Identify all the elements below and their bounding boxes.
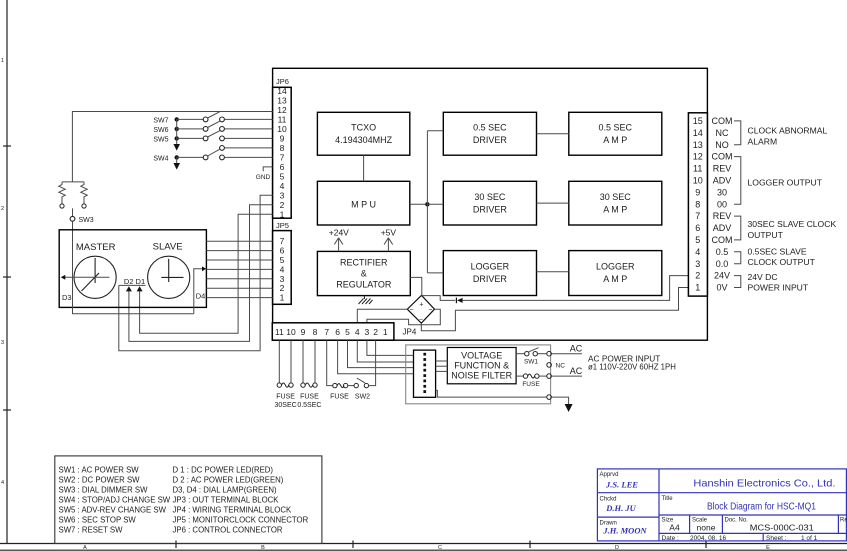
- svg-text:2004. 08. 16: 2004. 08. 16: [690, 535, 727, 542]
- svg-text:2: 2: [1, 206, 4, 212]
- svg-text:Sheet :: Sheet :: [766, 535, 787, 542]
- svg-text:0V: 0V: [716, 283, 727, 293]
- svg-text:TCXO: TCXO: [351, 123, 376, 133]
- svg-text:SW6 : SEC STOP SW: SW6 : SEC STOP SW: [59, 516, 137, 525]
- contact circle under R-dim2: [82, 204, 86, 208]
- svg-text:D.H. JU: D.H. JU: [605, 503, 636, 513]
- svg-text:3: 3: [1, 340, 4, 346]
- junction node on MPU bus: [425, 202, 429, 206]
- svg-text:1: 1: [280, 293, 285, 303]
- svg-text:OUTPUT: OUTPUT: [748, 230, 784, 240]
- svg-text:15: 15: [693, 116, 703, 126]
- svg-text:D3, D4 : DIAL LAMP(GREEN): D3, D4 : DIAL LAMP(GREEN): [173, 486, 278, 495]
- wire JP6 pin1 to LED D1: [140, 214, 273, 333]
- wire 30 driver to amp: [537, 202, 569, 204]
- logger amp block: [569, 251, 662, 296]
- connector JP4 wiring terminal block: [272, 323, 417, 340]
- svg-text:4: 4: [355, 327, 360, 337]
- wire AC upper lead: [551, 353, 582, 355]
- svg-text:11: 11: [693, 164, 702, 174]
- svg-text:7: 7: [695, 211, 700, 221]
- svg-text:5: 5: [695, 235, 700, 245]
- terminal strip inside supply unit: [414, 350, 436, 397]
- MPU block: [317, 181, 409, 225]
- svg-text:1 of 1: 1 of 1: [801, 535, 818, 542]
- svg-text:POWER INPUT: POWER INPUT: [748, 283, 809, 293]
- svg-text:5: 5: [345, 327, 350, 337]
- wire dial dimmer to JP6 pin 12: [72, 112, 272, 182]
- svg-text:SW4: SW4: [153, 155, 168, 162]
- svg-text:24V DC: 24V DC: [748, 272, 778, 282]
- wire JP4 pin6 to line filter: [338, 340, 414, 374]
- wire bus to 0.5 sec driver: [427, 130, 443, 132]
- svg-text:4.194304MHZ: 4.194304MHZ: [335, 135, 393, 145]
- svg-text:−: −: [409, 307, 413, 314]
- +5V supply arrow: [384, 238, 393, 252]
- svg-text:LOGGER OUTPUT: LOGGER OUTPUT: [748, 178, 823, 188]
- svg-text:D: D: [615, 545, 619, 551]
- wires strip to filter block: [436, 361, 448, 371]
- wire SW3 down to dial lamps: [72, 221, 74, 277]
- svg-text:−: −: [428, 307, 432, 314]
- svg-text:D 2 : AC POWER LED(GREEN): D 2 : AC POWER LED(GREEN): [173, 476, 284, 485]
- wire AC lower lead: [551, 375, 582, 377]
- wire bus to logger driver: [427, 272, 443, 274]
- fuse F3 and switch SW2 chain JP4 pin7 to pin2: [327, 340, 376, 400]
- svg-text:DRIVER: DRIVER: [473, 205, 508, 215]
- LED common bar wire: [119, 284, 146, 286]
- svg-text:RECTIFIER: RECTIFIER: [340, 258, 388, 268]
- wire JP4 pin3 to line filter: [367, 340, 414, 355]
- svg-text:REV: REV: [713, 164, 732, 174]
- svg-text:ø1 110V-220V 60HZ 1PH: ø1 110V-220V 60HZ 1PH: [588, 362, 676, 371]
- main unit outline box: [273, 68, 708, 340]
- svg-text:9: 9: [280, 133, 285, 143]
- svg-text:10: 10: [286, 327, 296, 337]
- wire bus vertical: [426, 131, 428, 273]
- svg-text:12: 12: [693, 152, 703, 162]
- svg-text:2: 2: [373, 327, 378, 337]
- wire D4 lamp with arrow: [194, 266, 206, 313]
- svg-text:SW1: SW1: [524, 359, 538, 366]
- svg-text:SLAVE: SLAVE: [153, 242, 183, 253]
- svg-text:Block Diagram for HSC-MQ1: Block Diagram for HSC-MQ1: [707, 502, 816, 513]
- svg-text:2: 2: [695, 271, 700, 281]
- switch SW6 sec stop: [153, 121, 272, 134]
- svg-text:NOISE FILTER: NOISE FILTER: [451, 371, 512, 381]
- svg-text:NO: NO: [715, 140, 729, 150]
- wire resistor tee bar: [62, 181, 84, 183]
- wire dimmer common: [72, 208, 74, 216]
- svg-text:JP4: JP4: [403, 328, 417, 337]
- LED D1 arrow: [137, 286, 143, 291]
- wires clock unit to JP5 pins 7-1: [206, 241, 272, 297]
- svg-text:1: 1: [383, 327, 388, 337]
- title block small labels: [600, 472, 847, 527]
- wire JP6 pin2 to LED D2: [129, 205, 273, 342]
- connector JP5 monitorclock connector: [273, 221, 292, 304]
- svg-text:D 1 : DC POWER LED(RED): D 1 : DC POWER LED(RED): [173, 466, 274, 475]
- svg-text:30 SEC: 30 SEC: [600, 192, 632, 202]
- svg-text:MCS-000C-031: MCS-000C-031: [750, 523, 814, 533]
- svg-text:9: 9: [695, 187, 700, 197]
- master slave clock unit box: [59, 230, 206, 308]
- svg-text:DRIVER: DRIVER: [473, 274, 508, 284]
- fuse F4 AC line: [516, 374, 547, 388]
- svg-text:ALARM: ALARM: [748, 137, 778, 147]
- svg-text:J.S. LEE: J.S. LEE: [605, 480, 638, 490]
- svg-text:14: 14: [693, 128, 703, 138]
- GND stub at JP6 pin 6: [256, 167, 273, 181]
- label 24V DC power input: [748, 272, 809, 293]
- svg-text:SW2: SW2: [355, 394, 370, 401]
- master dial: [74, 256, 116, 298]
- svg-text:14: 14: [277, 86, 287, 96]
- JP3 pin net names: [712, 116, 733, 293]
- svg-text:A: A: [83, 545, 87, 551]
- date and sheet row: [662, 535, 818, 542]
- svg-text:3: 3: [280, 190, 285, 200]
- AC terminal lower: [547, 374, 552, 379]
- svg-text:10: 10: [277, 124, 287, 134]
- svg-text:Apprvd: Apprvd: [600, 472, 619, 478]
- slave dial: [148, 256, 190, 298]
- svg-text:Chckd: Chckd: [600, 497, 617, 503]
- contact circle under R-dim1: [60, 204, 64, 208]
- svg-text:FUSE: FUSE: [330, 394, 349, 401]
- svg-text:FUSE: FUSE: [522, 381, 540, 388]
- wire SW7-SW6-SW5 common bus: [176, 119, 178, 144]
- 0.5 sec amp block: [569, 112, 662, 155]
- svg-text:0.0: 0.0: [716, 259, 729, 269]
- svg-text:A M P: A M P: [603, 205, 627, 215]
- legend box: [55, 456, 322, 544]
- svg-text:Date :: Date :: [662, 535, 680, 542]
- svg-text:8: 8: [695, 199, 700, 209]
- svg-text:+5V: +5V: [381, 228, 397, 238]
- svg-text:A M P: A M P: [603, 135, 627, 145]
- svg-text:MASTER: MASTER: [76, 242, 116, 253]
- svg-text:JP6: JP6: [276, 77, 289, 86]
- wire JP4 pin4 to bridge AC left: [357, 309, 407, 323]
- label 30sec slave clock output: [748, 219, 837, 240]
- switch SW3 dial dimmer: [70, 216, 75, 221]
- svg-text:SW1 : AC POWER SW: SW1 : AC POWER SW: [59, 466, 140, 475]
- svg-text:REV: REV: [713, 211, 732, 221]
- connector JP3 terminal block: [688, 113, 707, 296]
- 30 sec amp block: [569, 181, 662, 225]
- svg-text:D3: D3: [62, 293, 72, 302]
- svg-text:NC: NC: [716, 128, 729, 138]
- bracket 30sec slave clock pins 7-5: [734, 216, 741, 240]
- svg-text:ADV: ADV: [713, 176, 732, 186]
- svg-text:24V: 24V: [714, 271, 730, 281]
- svg-text:&: &: [361, 269, 367, 279]
- wire TCXO to MPU: [363, 155, 365, 181]
- switch SW1 AC power: [516, 348, 547, 366]
- svg-text:30SEC SLAVE CLOCK: 30SEC SLAVE CLOCK: [748, 219, 837, 229]
- resistor R-dim1: [59, 182, 65, 204]
- svg-text:Title: Title: [662, 496, 674, 502]
- svg-text:E: E: [766, 545, 770, 551]
- svg-text:J.H. MOON: J.H. MOON: [602, 526, 647, 536]
- svg-text:ADV: ADV: [713, 223, 732, 233]
- ground symbol under regulator: [359, 296, 373, 304]
- svg-text:1: 1: [695, 283, 700, 293]
- svg-text:JP6 : CONTROL CONNECTOR: JP6 : CONTROL CONNECTOR: [173, 526, 283, 535]
- svg-text:CLOCK OUTPUT: CLOCK OUTPUT: [748, 257, 816, 267]
- wire JP4 pin3 to bridge AC right: [367, 309, 440, 325]
- svg-text:8: 8: [313, 327, 318, 337]
- bracket clock abnormal alarm pins 15-13: [734, 121, 741, 145]
- 30 sec driver block: [443, 181, 536, 225]
- svg-text:3: 3: [695, 259, 700, 269]
- svg-text:8: 8: [280, 143, 285, 153]
- svg-text:A4: A4: [669, 523, 680, 533]
- title block: [597, 469, 846, 541]
- legend text column 2: [173, 466, 309, 535]
- switch SW5 adv-rev: [153, 131, 272, 144]
- svg-text:SW3: SW3: [79, 217, 94, 224]
- LED D2 arrow: [126, 286, 132, 291]
- svg-text:+24V: +24V: [329, 228, 349, 238]
- svg-text:SW4 : STOP/ADJ CHANGE SW: SW4 : STOP/ADJ CHANGE SW: [59, 496, 171, 505]
- svg-text:GND: GND: [256, 174, 271, 181]
- svg-text:LOGGER: LOGGER: [471, 262, 510, 272]
- oscillator U-TCXO block: [317, 112, 409, 155]
- svg-text:0.5SEC: 0.5SEC: [297, 402, 321, 409]
- svg-text:6: 6: [335, 327, 340, 337]
- svg-text:0.5 SEC: 0.5 SEC: [473, 123, 507, 133]
- svg-text:5: 5: [280, 171, 285, 181]
- ground arrow under SW5: [173, 144, 180, 151]
- svg-text:REGULATOR: REGULATOR: [336, 280, 392, 290]
- wire JP6 pin3 to LED bar net: [119, 195, 273, 350]
- svg-text:7: 7: [280, 152, 285, 162]
- svg-text:4: 4: [695, 247, 700, 257]
- svg-text:AC: AC: [570, 366, 583, 376]
- svg-text:13: 13: [277, 96, 287, 106]
- switch SW4 stop/adj (SPDT): [153, 146, 272, 163]
- svg-text:LOGGER: LOGGER: [596, 262, 635, 272]
- svg-text:7: 7: [324, 327, 329, 337]
- wire bridge minus to 0V output: [421, 288, 688, 331]
- bracket logger output pins 12-8: [734, 157, 741, 205]
- svg-text:10: 10: [693, 176, 703, 186]
- svg-text:+: +: [419, 302, 423, 309]
- svg-text:JP5: JP5: [276, 221, 289, 230]
- label clock abnormal alarm: [748, 126, 828, 147]
- svg-text:FUSE: FUSE: [276, 394, 295, 401]
- svg-text:SW2 : DC POWER SW: SW2 : DC POWER SW: [59, 476, 141, 485]
- bridge rectifier diamond: [407, 295, 434, 323]
- bracket 24V DC power input pins 2-1: [734, 276, 741, 288]
- legend text column 1: [59, 466, 171, 535]
- svg-text:9: 9: [301, 327, 306, 337]
- svg-text:M P U: M P U: [351, 200, 376, 210]
- svg-text:2: 2: [280, 200, 285, 210]
- AC power supply unit box: [406, 345, 551, 404]
- svg-text:JP4 : WIRING TERMINAL BLOCK: JP4 : WIRING TERMINAL BLOCK: [173, 506, 293, 515]
- svg-text:SW5: SW5: [153, 136, 168, 143]
- svg-text:NC: NC: [556, 363, 566, 370]
- title block values: [669, 523, 814, 533]
- wire JP4 pin5 to line filter: [348, 340, 414, 367]
- svg-text:JP5 : MONITORCLOCK CONNECTOR: JP5 : MONITORCLOCK CONNECTOR: [173, 516, 309, 525]
- svg-text:1: 1: [280, 209, 285, 219]
- bracket 0.5sec slave clock pins 4-3: [734, 252, 741, 264]
- svg-text:COM: COM: [712, 235, 733, 245]
- svg-text:SW7: SW7: [153, 117, 168, 124]
- rectifier regulator block: [317, 251, 410, 295]
- logger driver block: [443, 251, 536, 296]
- svg-text:SW7 : RESET SW: SW7 : RESET SW: [59, 526, 124, 535]
- AC terminal upper: [547, 351, 552, 356]
- svg-text:SW5 : ADV-REV CHANGE SW: SW5 : ADV-REV CHANGE SW: [59, 506, 167, 515]
- svg-text:−: −: [419, 317, 423, 324]
- svg-text:30: 30: [717, 187, 727, 197]
- fuse F2 0.5SEC on JP4 pins 9-8: [297, 340, 321, 409]
- svg-text:30 SEC: 30 SEC: [474, 192, 506, 202]
- label 0.5sec slave clock output: [748, 247, 816, 268]
- svg-text:30SEC: 30SEC: [275, 402, 297, 409]
- svg-text:13: 13: [693, 140, 703, 150]
- svg-text:D2 D1: D2 D1: [124, 277, 145, 286]
- wire JP4 pin4 to line filter: [357, 340, 413, 362]
- voltage function noise filter block: [447, 348, 516, 384]
- svg-text:COM: COM: [712, 152, 733, 162]
- svg-text:4: 4: [1, 480, 4, 486]
- wire MPU to bus: [410, 203, 428, 205]
- svg-text:FUSE: FUSE: [300, 394, 319, 401]
- svg-text:4: 4: [280, 181, 285, 191]
- svg-text:none: none: [697, 523, 716, 533]
- svg-text:6: 6: [695, 223, 700, 233]
- wire bridge plus to 24V output via diode: [422, 296, 456, 301]
- svg-text:CLOCK ABNORMAL: CLOCK ABNORMAL: [748, 126, 828, 136]
- wire logger driver to amp: [537, 271, 569, 273]
- earth ground arrow: [565, 404, 573, 412]
- +24V supply arrow: [334, 238, 343, 252]
- svg-text:00: 00: [717, 199, 727, 209]
- switch SW7 reset: [153, 112, 272, 125]
- diode D5 on 24V line: [456, 298, 462, 304]
- svg-text:0.5: 0.5: [716, 247, 729, 257]
- svg-text:JP3 : OUT TERMINAL BLOCK: JP3 : OUT TERMINAL BLOCK: [173, 496, 280, 505]
- fuse F1 30SEC on JP4 pins 11-10: [275, 340, 297, 409]
- svg-text:COM: COM: [712, 116, 733, 126]
- svg-text:11: 11: [278, 114, 287, 124]
- svg-text:0.5SEC SLAVE: 0.5SEC SLAVE: [748, 247, 807, 257]
- NC terminal: [547, 363, 565, 370]
- earth terminal and wire: [436, 390, 569, 404]
- 0.5 sec driver block: [443, 112, 536, 155]
- svg-text:A M P: A M P: [603, 274, 627, 284]
- svg-text:SW3 : DIAL DIMMER SW: SW3 : DIAL DIMMER SW: [59, 486, 149, 495]
- svg-text:D4: D4: [196, 292, 206, 301]
- svg-text:C: C: [438, 545, 442, 551]
- resistor R-dim2: [81, 182, 87, 204]
- svg-text:FUNCTION &: FUNCTION &: [454, 360, 509, 370]
- svg-text:3: 3: [365, 327, 370, 337]
- svg-text:1: 1: [1, 58, 4, 64]
- wire SW3 lamp feed below box: [73, 277, 194, 314]
- svg-text:Hanshin Electronics Co., Ltd.: Hanshin Electronics Co., Ltd.: [693, 477, 835, 489]
- svg-text:VOLTAGE: VOLTAGE: [461, 350, 502, 360]
- svg-text:Re: Re: [840, 518, 847, 524]
- ground arrow under SW4: [173, 157, 180, 169]
- svg-text:11: 11: [275, 327, 284, 337]
- connector JP6 control connector: [273, 77, 292, 219]
- wire regulator to bridge plus: [410, 277, 422, 295]
- svg-text:SW6: SW6: [153, 127, 168, 134]
- wire 0.5 driver to amp: [537, 133, 569, 135]
- svg-text:0.5 SEC: 0.5 SEC: [599, 123, 633, 133]
- svg-text:Doc. No.: Doc. No.: [725, 518, 749, 524]
- label AC power input: [588, 354, 676, 372]
- svg-text:DRIVER: DRIVER: [473, 135, 508, 145]
- wire bus to 30 sec driver: [427, 203, 443, 205]
- svg-text:AC: AC: [570, 344, 583, 354]
- svg-text:B: B: [261, 545, 265, 551]
- wire D3 lamp with arrow: [61, 275, 110, 302]
